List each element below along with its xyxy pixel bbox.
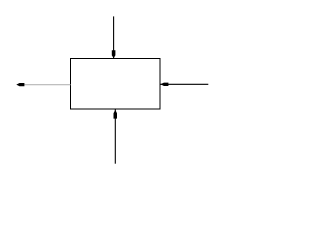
arrowhead bottom input bbox=[114, 110, 118, 119]
wire top input bbox=[113, 16, 115, 58]
wire right input bbox=[160, 83, 208, 85]
process box bbox=[71, 59, 161, 110]
arrowhead right input bbox=[161, 83, 169, 86]
arrowhead top input bbox=[112, 50, 116, 58]
wire bottom input bbox=[114, 109, 116, 163]
arrowhead left output bbox=[16, 83, 24, 86]
wire left output bbox=[24, 84, 70, 86]
